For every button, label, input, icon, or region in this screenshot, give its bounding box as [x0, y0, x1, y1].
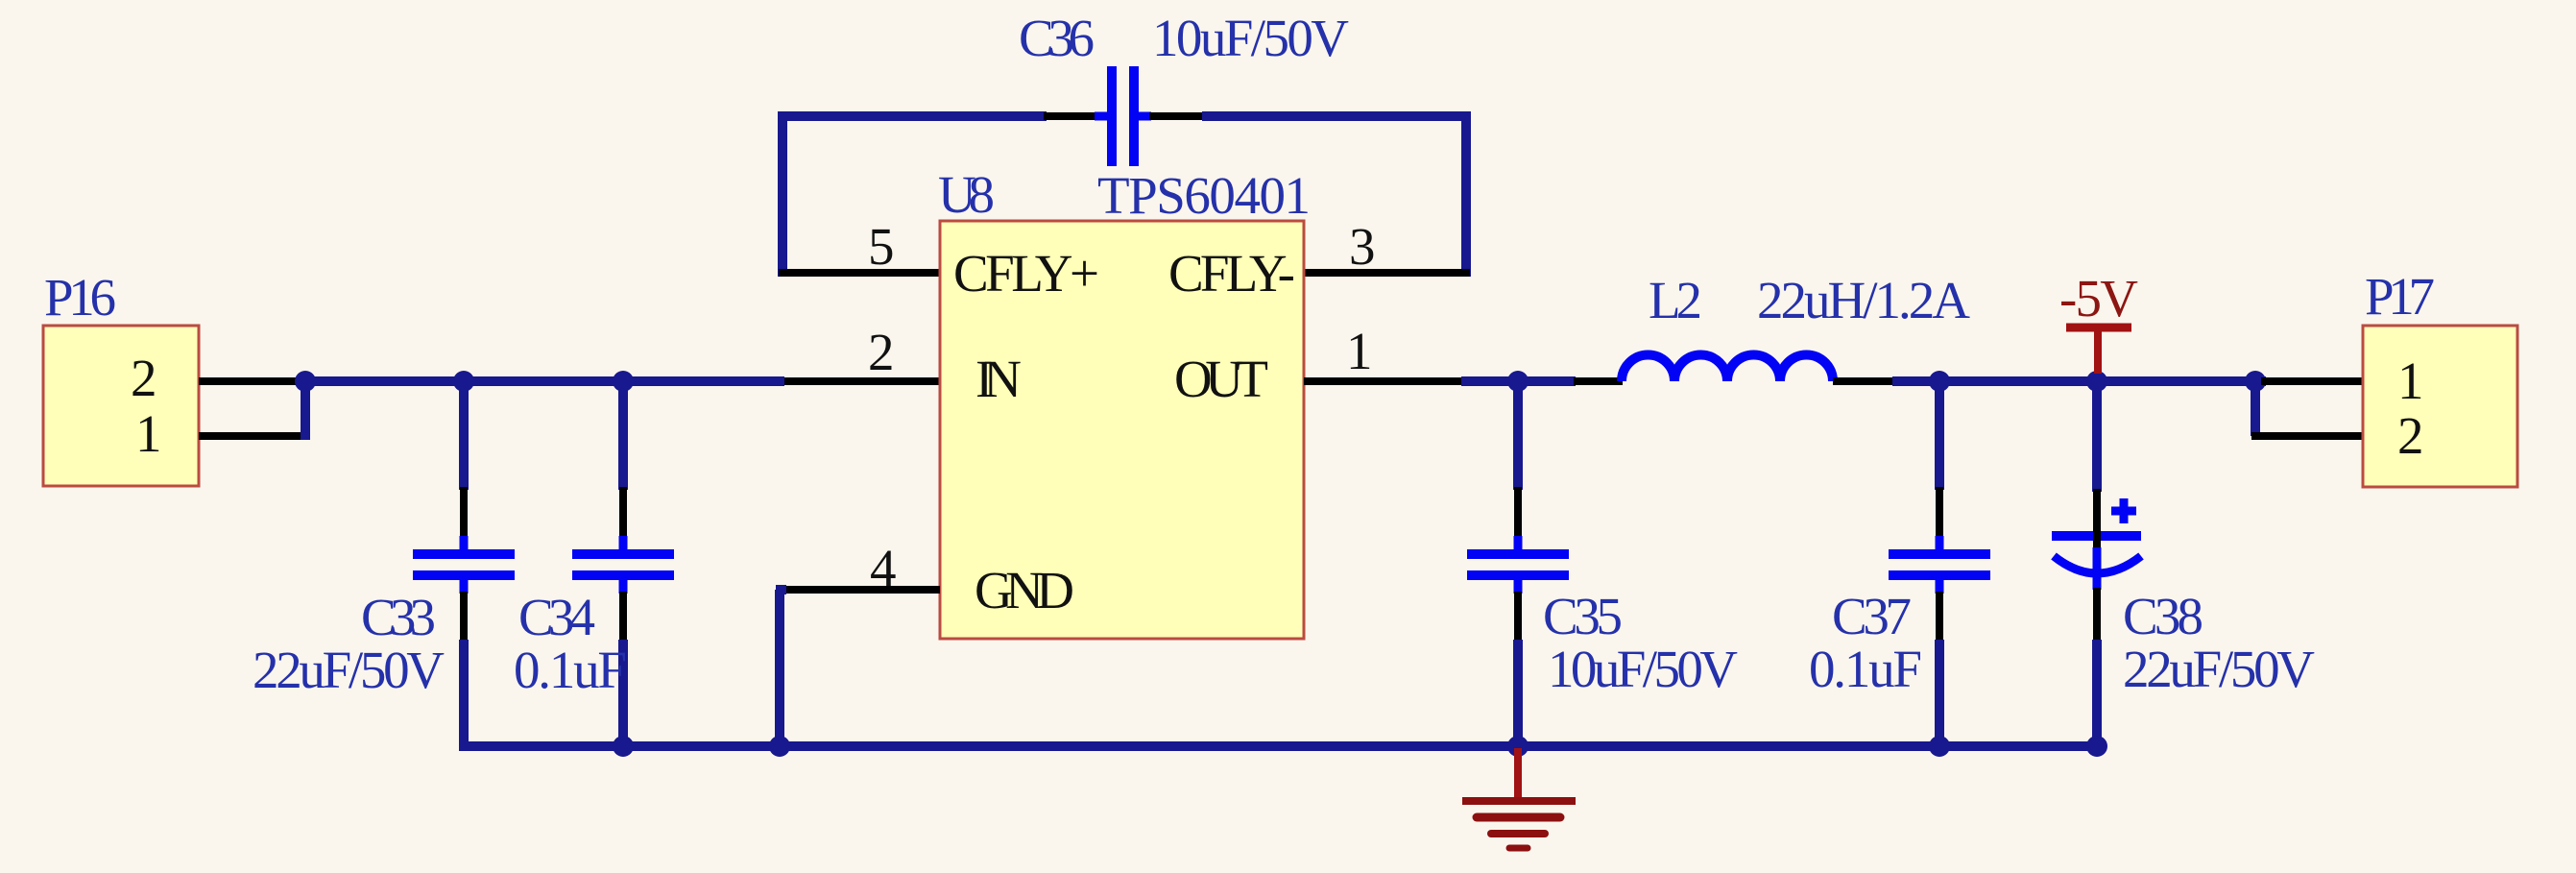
svg-text:4: 4 [870, 539, 897, 597]
svg-text:22uH/1.2A: 22uH/1.2A [1757, 271, 1970, 329]
svg-text:IN: IN [975, 350, 1022, 408]
capacitor C36 [1019, 9, 1349, 166]
capacitor C35 [1467, 381, 1738, 746]
svg-text:TPS60401: TPS60401 [1097, 166, 1311, 225]
ground [1462, 748, 1576, 848]
node junction C33 [453, 371, 474, 392]
node junction pin2/pin1 [295, 371, 316, 392]
capacitor C37 [1809, 381, 1990, 746]
svg-text:C38: C38 [2123, 587, 2203, 645]
capacitor C38 (polarized) [2052, 381, 2315, 746]
wire P17 jog down [2251, 381, 2260, 436]
svg-text:22uF/50V: 22uF/50V [253, 641, 445, 699]
svg-text:CFLY+: CFLY+ [953, 244, 1099, 303]
svg-text:3: 3 [1349, 217, 1376, 276]
svg-text:L2: L2 [1649, 271, 1702, 329]
svg-text:0.1uF: 0.1uF [1809, 640, 1922, 698]
svg-text:1: 1 [2397, 352, 2424, 410]
svg-text:P17: P17 [2365, 267, 2435, 326]
svg-text:C33: C33 [361, 588, 436, 646]
wire OUT to inductor [1461, 376, 1576, 386]
svg-text:2: 2 [131, 349, 157, 407]
capacitor C33 [253, 381, 515, 746]
node junction C35 [1507, 371, 1529, 392]
svg-text:CFLY-: CFLY- [1168, 244, 1295, 303]
svg-text:GND: GND [975, 561, 1074, 619]
wire CFLY- stub [1304, 269, 1470, 277]
wire pin1 jog up [301, 381, 310, 440]
wire P16 pin2 stub [199, 377, 305, 385]
svg-text:22uF/50V: 22uF/50V [2123, 640, 2315, 698]
node junction -5V/C38 [2086, 371, 2107, 392]
svg-text:10uF/50V: 10uF/50V [1548, 640, 1738, 698]
svg-text:C35: C35 [1543, 587, 1623, 645]
svg-text:10uF/50V: 10uF/50V [1152, 9, 1349, 67]
svg-text:U8: U8 [938, 165, 995, 224]
node junction ground tap [1507, 736, 1529, 757]
node junction C34 [613, 371, 634, 392]
svg-text:-5V: -5V [2059, 269, 2138, 327]
svg-text:C34: C34 [518, 588, 595, 646]
svg-text:OUT: OUT [1174, 350, 1268, 408]
node junction C37 bottom [1929, 736, 1950, 757]
svg-text:2: 2 [868, 323, 895, 381]
inductor L2 [1622, 271, 1970, 381]
svg-text:5: 5 [868, 217, 895, 276]
wire CFLY+ vertical from top rail [778, 111, 787, 277]
node junction P17 jog [2245, 371, 2266, 392]
wire main input rail [305, 376, 784, 386]
svg-text:C37: C37 [1832, 587, 1912, 645]
svg-text:C36: C36 [1019, 9, 1095, 67]
svg-text:0.1uF: 0.1uF [514, 641, 627, 699]
wire inductor right [1833, 377, 1894, 385]
power -5V [2059, 269, 2138, 374]
node junction C38 bottom [2086, 736, 2107, 757]
wire P16 pin1 stub [199, 432, 305, 440]
svg-text:1: 1 [135, 404, 162, 463]
wire top rail left [778, 111, 1047, 121]
wire IN stub [784, 377, 940, 385]
svg-text:1: 1 [1346, 322, 1373, 380]
svg-text:P16: P16 [44, 268, 116, 327]
wire GND stub [784, 586, 940, 594]
wire GND vertical down [775, 590, 784, 746]
connector P16 [43, 268, 199, 486]
op-amp U8 TPS60401 [938, 165, 1311, 639]
wire CFLY+ stub [779, 269, 940, 277]
svg-text:2: 2 [2397, 406, 2424, 465]
capacitor C34 [514, 381, 674, 746]
node junction GND bottom [769, 736, 790, 757]
node junction C34 bottom [613, 736, 634, 757]
wire bottom ground rail [459, 741, 2097, 751]
connector P17 [2363, 267, 2517, 487]
wire CFLY- vertical [1461, 111, 1471, 277]
wire OUT stub [1304, 377, 1463, 385]
wire top rail right [1139, 112, 1151, 121]
wire P17 pin2 stub [2251, 432, 2363, 440]
wire P17 pin1 stub [2261, 377, 2363, 385]
node junction C37 [1929, 371, 1950, 392]
